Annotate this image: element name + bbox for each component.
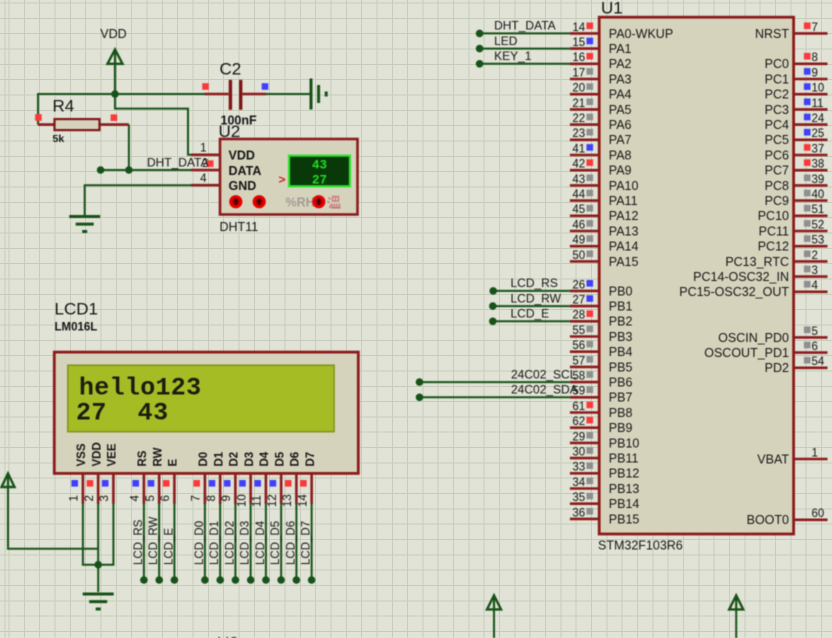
svg-text:PB12: PB12 — [609, 467, 640, 481]
pin LCD1.5 stub — [158, 473, 161, 503]
svg-text:D6: D6 — [290, 452, 302, 467]
svg-text:R4: R4 — [53, 97, 75, 116]
pin U1.38 PC7 stub — [794, 169, 828, 172]
svg-text:27: 27 — [572, 295, 585, 307]
svg-text:24C02_SCL: 24C02_SCL — [511, 367, 577, 381]
svg-text:LCD_D4: LCD_D4 — [255, 520, 267, 565]
svg-text:U3: U3 — [217, 634, 239, 638]
wire LCD_RS to U1 — [493, 290, 570, 292]
pin marker U1.51 — [804, 205, 811, 212]
junction LCD_RS — [489, 287, 497, 295]
pin U1.30 PB11 stub — [570, 457, 599, 460]
svg-text:VBAT: VBAT — [757, 452, 789, 466]
pin marker U1.50 — [587, 251, 594, 258]
svg-text:1: 1 — [200, 143, 206, 155]
svg-text:10: 10 — [812, 83, 825, 95]
pin marker R4.1 — [35, 114, 42, 121]
svg-text:22: 22 — [572, 113, 585, 125]
pin marker U1.25 — [804, 129, 811, 136]
pin U1.11 PC3 stub — [794, 108, 828, 111]
svg-text:>: > — [279, 173, 286, 187]
pin U1.35 PB14 stub — [570, 502, 599, 505]
wire LCD_RW (LCD side) — [158, 503, 160, 580]
svg-text:PA4: PA4 — [609, 88, 632, 102]
wire LCD_D6 (LCD side) — [295, 503, 297, 580]
pin marker LCD1.11 — [254, 480, 261, 487]
pin marker U1.35 — [587, 493, 594, 500]
wire LCD_D1 (LCD side) — [219, 503, 221, 580]
svg-text:D7: D7 — [305, 452, 317, 467]
pin U1.29 PB10 stub — [570, 442, 599, 445]
junction DATA (left) — [97, 166, 105, 174]
pin marker U1.45 — [587, 205, 594, 212]
svg-text:PC11: PC11 — [759, 224, 789, 238]
svg-text:LCD_D0: LCD_D0 — [194, 521, 206, 565]
svg-text:PC1: PC1 — [765, 72, 789, 86]
pin marker U1.5 — [804, 327, 811, 334]
pin marker U1.6 — [804, 342, 811, 349]
svg-text:9: 9 — [221, 495, 233, 501]
svg-text:PC5: PC5 — [765, 133, 789, 147]
svg-text:30: 30 — [572, 447, 585, 459]
svg-text:28: 28 — [572, 310, 585, 322]
svg-text:2: 2 — [812, 250, 818, 262]
svg-text:7: 7 — [191, 495, 203, 501]
pin U1.58 PB6 stub — [570, 381, 599, 384]
pin U1.8 PC0 stub — [794, 62, 828, 65]
svg-text:PB0: PB0 — [609, 284, 633, 298]
svg-text:PC0: PC0 — [765, 57, 789, 71]
pin LCD1.1 stub — [82, 473, 85, 503]
pin marker U1.30 — [587, 447, 594, 454]
wire LCD_D3 (LCD side) — [250, 503, 252, 580]
svg-text:25: 25 — [812, 128, 825, 140]
svg-text:1: 1 — [69, 495, 81, 501]
pin marker LCD1.1 — [71, 480, 78, 487]
svg-text:VSS: VSS — [76, 443, 88, 466]
pin U2.4 GND stub — [191, 184, 220, 187]
pin U1.60 BOOT0 stub — [794, 518, 828, 521]
svg-text:46: 46 — [572, 219, 585, 231]
svg-text:VDD: VDD — [100, 27, 126, 41]
svg-text:LCD_RW: LCD_RW — [148, 517, 160, 565]
pin marker U1.10 — [804, 83, 811, 90]
pin U1.44 PA11 stub — [570, 199, 599, 202]
svg-text:14: 14 — [572, 22, 585, 34]
wire LCD power to ground — [97, 565, 99, 592]
svg-text:STM32F103R6: STM32F103R6 — [598, 539, 683, 553]
svg-text:56: 56 — [572, 340, 585, 352]
svg-text:PB3: PB3 — [609, 330, 633, 344]
pin marker LCD1.3 — [102, 480, 109, 487]
svg-text:23: 23 — [572, 128, 585, 140]
svg-text:PC2: PC2 — [765, 88, 789, 102]
svg-text:LCD_E: LCD_E — [163, 528, 175, 565]
pin U1.52 PC11 stub — [794, 230, 828, 233]
svg-text:42: 42 — [572, 159, 585, 171]
svg-text:DHT_DATA: DHT_DATA — [147, 155, 209, 169]
pin U1.42 PA9 stub — [570, 169, 599, 172]
power symbol VDD — [108, 50, 123, 95]
pin marker U1.8 — [804, 53, 811, 60]
pin marker C2.2 — [262, 83, 269, 90]
svg-text:PA1: PA1 — [609, 42, 632, 56]
pin marker U1.2 — [804, 251, 811, 258]
pin U1.59 PB7 stub — [570, 396, 599, 399]
wire LCD_D7 (LCD side) — [311, 503, 313, 580]
svg-text:PA15: PA15 — [609, 255, 639, 269]
svg-text:9: 9 — [812, 67, 818, 79]
pin marker U1.16 — [587, 53, 594, 60]
wire LCD_D2 (LCD side) — [234, 503, 236, 580]
pin U1.10 PC2 stub — [794, 93, 828, 96]
svg-text:DHT_DATA: DHT_DATA — [494, 19, 556, 33]
svg-text:PB7: PB7 — [609, 391, 633, 405]
junction LCD_D2 end — [232, 576, 240, 584]
svg-text:6: 6 — [812, 341, 818, 353]
wire bottom centre power stem — [493, 609, 495, 638]
pin marker U1.54 — [804, 357, 811, 364]
svg-text:61: 61 — [572, 401, 585, 413]
IC LCD1 body — [54, 352, 358, 473]
svg-text:LCD_RW: LCD_RW — [511, 291, 562, 305]
junction LCD_D6 end — [293, 576, 301, 584]
wire LCD_D4 (LCD side) — [265, 503, 267, 580]
pin marker U1.14 — [587, 23, 594, 30]
wire DHT11 GND net — [85, 185, 191, 216]
svg-text:16: 16 — [572, 52, 585, 64]
svg-text:37: 37 — [812, 143, 825, 155]
pin marker LCD1.9 — [224, 480, 231, 487]
pin LCD1.11 stub — [265, 473, 268, 503]
svg-text:BOOT0: BOOT0 — [747, 513, 789, 527]
junction 24C02_SDA — [416, 394, 424, 402]
pin U1.26 PB0 stub — [570, 290, 599, 293]
pin marker LCD1.12 — [270, 480, 277, 487]
svg-text:27 43: 27 43 — [76, 398, 168, 427]
svg-text:17: 17 — [572, 67, 585, 79]
IC U1 STM32F103R6 body — [599, 17, 793, 534]
junction DHT_DATA — [476, 30, 484, 38]
svg-text:LCD_E: LCD_E — [511, 307, 550, 321]
svg-text:13: 13 — [282, 494, 294, 507]
svg-text:PB4: PB4 — [609, 345, 633, 359]
pin marker LCD1.13 — [285, 480, 292, 487]
svg-text:C2: C2 — [220, 60, 242, 79]
junction LED — [476, 45, 484, 53]
svg-text:PB1: PB1 — [609, 300, 633, 314]
junction LCD_D4 end — [262, 576, 270, 584]
svg-text:8: 8 — [206, 495, 218, 501]
svg-text:PA0-WKUP: PA0-WKUP — [609, 27, 673, 41]
ground (DHT11) — [69, 217, 100, 232]
svg-text:PB2: PB2 — [609, 315, 633, 329]
pin marker U1.34 — [587, 478, 594, 485]
pin U1.6 OSCOUT_PD1 stub — [794, 351, 828, 354]
svg-text:PB6: PB6 — [609, 376, 633, 390]
svg-text:5: 5 — [145, 495, 157, 501]
svg-text:PA14: PA14 — [609, 240, 639, 254]
svg-text:49: 49 — [572, 235, 585, 247]
svg-text:PB10: PB10 — [609, 436, 640, 450]
svg-text:PC4: PC4 — [765, 118, 789, 132]
svg-text:40: 40 — [812, 189, 825, 201]
DHT11 temp button — [312, 195, 325, 208]
svg-text:LM016L: LM016L — [55, 322, 98, 334]
DHT11 down button — [229, 195, 242, 208]
pin U1.15 PA1 stub — [570, 47, 599, 50]
svg-text:54: 54 — [812, 356, 825, 368]
svg-text:U1: U1 — [601, 0, 623, 18]
pin U1.17 PA3 stub — [570, 78, 599, 81]
svg-text:4: 4 — [200, 173, 207, 185]
svg-text:34: 34 — [572, 477, 585, 489]
svg-text:GND: GND — [229, 179, 257, 193]
svg-text:PA8: PA8 — [609, 148, 632, 162]
svg-text:LED: LED — [494, 34, 518, 48]
pin LCD1.13 stub — [295, 473, 298, 503]
pin marker U1.29 — [587, 432, 594, 439]
svg-text:41: 41 — [572, 143, 585, 155]
svg-text:26: 26 — [572, 279, 585, 291]
wire R4 right leg down to DATA — [128, 125, 130, 170]
pin marker U1.40 — [804, 190, 811, 197]
svg-text:11: 11 — [252, 495, 264, 507]
svg-text:PC8: PC8 — [765, 179, 789, 193]
wire KEY_1 to U1 — [480, 63, 570, 65]
pin marker LCD1.5 — [148, 480, 155, 487]
pin marker U1.17 — [587, 68, 594, 75]
svg-text:PA10: PA10 — [609, 179, 639, 193]
svg-text:PB15: PB15 — [609, 512, 640, 526]
svg-text:6: 6 — [160, 495, 172, 501]
wire 24C02_SCL to U1 — [420, 381, 570, 383]
pin U2.1 VDD stub — [191, 154, 220, 157]
svg-text:2: 2 — [84, 495, 96, 501]
svg-text:52: 52 — [812, 219, 825, 231]
svg-text:VDD: VDD — [92, 442, 104, 466]
svg-text:NRST: NRST — [755, 27, 789, 41]
junction LCD_RW — [489, 302, 497, 310]
svg-text:38: 38 — [812, 159, 825, 171]
pin marker U1.42 — [587, 159, 594, 166]
pin marker U1.9 — [804, 68, 811, 75]
wire LCD VSS — [83, 503, 98, 565]
svg-text:5k: 5k — [53, 133, 65, 145]
svg-text:LCD_D7: LCD_D7 — [301, 521, 313, 565]
svg-text:D2: D2 — [229, 452, 241, 467]
wire LCD_E to U1 — [493, 320, 570, 322]
svg-text:15: 15 — [572, 37, 585, 49]
pin marker U1.37 — [804, 144, 811, 151]
svg-text:RS: RS — [137, 450, 149, 466]
svg-text:60: 60 — [812, 508, 825, 520]
svg-text:36: 36 — [572, 507, 585, 519]
pin LCD1.8 stub — [219, 473, 222, 503]
svg-text:29: 29 — [572, 431, 585, 443]
svg-text:E: E — [168, 459, 180, 467]
pin U1.27 PB1 stub — [570, 305, 599, 308]
svg-text:PA12: PA12 — [609, 209, 639, 223]
pin LCD1.4 stub — [143, 473, 146, 503]
svg-text:45: 45 — [572, 204, 585, 216]
pin marker LCD1.6 — [163, 480, 170, 487]
svg-text:D1: D1 — [214, 451, 226, 466]
pin U1.61 PB8 stub — [570, 411, 599, 414]
svg-text:D4: D4 — [259, 451, 271, 466]
svg-text:11: 11 — [812, 98, 824, 110]
pin marker U1.20 — [587, 83, 594, 90]
pin U1.4 PC15-OSC32_OUT stub — [794, 290, 828, 293]
svg-text:43: 43 — [312, 158, 327, 172]
svg-text:LCD_D3: LCD_D3 — [240, 521, 252, 565]
wire LCD VEE — [98, 503, 113, 565]
DHT11 up button — [253, 195, 266, 208]
junction LCD_RS end — [140, 576, 148, 584]
wire LCD_D5 (LCD side) — [280, 503, 282, 580]
wire VDD rail — [38, 93, 205, 95]
pin LCD1.7 stub — [204, 473, 207, 503]
pin LCD1.2 stub — [97, 473, 100, 503]
DHT11 LCD readout — [289, 156, 350, 188]
svg-text:24C02_SDA: 24C02_SDA — [511, 383, 578, 397]
svg-text:OSCIN_PD0: OSCIN_PD0 — [718, 331, 789, 345]
svg-text:12: 12 — [267, 494, 279, 507]
pin U1.7 NRST stub — [794, 32, 828, 35]
svg-text:PC3: PC3 — [765, 103, 789, 117]
pin U1.23 PA7 stub — [570, 139, 599, 142]
pin LCD1.3 stub — [112, 473, 115, 503]
junction LCD power — [94, 561, 102, 569]
svg-text:PB8: PB8 — [609, 406, 633, 420]
pin marker U1.61 — [587, 402, 594, 409]
pin U1.40 PC9 stub — [794, 199, 828, 202]
pin U1.25 PC5 stub — [794, 139, 828, 142]
svg-text:PC7: PC7 — [765, 164, 789, 178]
wire LCD_RW to U1 — [493, 305, 570, 307]
junction LCD_D5 end — [277, 576, 285, 584]
pin marker U1.38 — [804, 159, 811, 166]
junction LCD_RW end — [155, 576, 163, 584]
pin marker U1.27 — [587, 295, 594, 302]
svg-text:PC9: PC9 — [765, 194, 789, 208]
pin U1.54 PD2 stub — [794, 366, 828, 369]
svg-text:35: 35 — [572, 492, 585, 504]
svg-text:D0: D0 — [198, 452, 210, 467]
pin U1.22 PA6 stub — [570, 123, 599, 126]
pin marker U1.57 — [587, 356, 594, 363]
pin U1.53 PC12 stub — [794, 245, 828, 248]
svg-text:27: 27 — [312, 173, 327, 187]
wire bottom right power stem — [735, 609, 737, 638]
svg-text:4: 4 — [812, 280, 819, 292]
wire 24C02_SDA to U1 — [420, 396, 570, 398]
svg-text:20: 20 — [572, 83, 585, 95]
pin U1.14 PA0-WKUP stub — [570, 32, 599, 35]
svg-text:PB14: PB14 — [609, 497, 640, 511]
svg-text:D5: D5 — [274, 451, 286, 466]
svg-text:U2: U2 — [219, 122, 241, 141]
pin marker U1.33 — [587, 462, 594, 469]
pin U1.5 OSCIN_PD0 stub — [794, 336, 828, 339]
pin marker U1.28 — [587, 310, 594, 317]
pin marker U1.59 — [587, 386, 594, 393]
pin marker C2.1 — [202, 83, 209, 90]
svg-text:D3: D3 — [244, 452, 256, 467]
pin marker U2.2 — [207, 160, 214, 167]
pin marker U1.15 — [587, 38, 594, 45]
pin U1.57 PB5 stub — [570, 366, 599, 369]
svg-text:4: 4 — [130, 495, 142, 502]
pin U1.43 PA10 stub — [570, 184, 599, 187]
svg-text:LCD_D2: LCD_D2 — [224, 521, 236, 565]
pin marker U1.62 — [587, 417, 594, 424]
svg-text:VEE: VEE — [107, 443, 119, 466]
svg-text:PC10: PC10 — [758, 209, 789, 223]
wire VDD rail left leg to R4 — [37, 93, 39, 125]
svg-text:PC14-OSC32_IN: PC14-OSC32_IN — [693, 270, 789, 284]
pin marker U1.22 — [587, 114, 594, 121]
pin marker U1.39 — [804, 175, 811, 182]
wire LCD VDD — [97, 503, 99, 565]
svg-text:57: 57 — [572, 355, 585, 367]
svg-text:KEY_1: KEY_1 — [494, 49, 532, 63]
pin marker LCD1.2 — [87, 480, 94, 487]
svg-text:PA3: PA3 — [609, 72, 632, 86]
ground (right of C2, rotated) — [311, 79, 326, 110]
svg-text:43: 43 — [572, 174, 585, 186]
ground (LCD) — [83, 594, 114, 609]
resistor R4 — [38, 119, 129, 130]
svg-text:PA6: PA6 — [609, 118, 632, 132]
svg-text:PB9: PB9 — [609, 421, 633, 435]
wire DHT11 DATA net — [101, 169, 191, 171]
svg-text:PA7: PA7 — [609, 133, 632, 147]
svg-text:53: 53 — [812, 235, 825, 247]
svg-text:LCD_RS: LCD_RS — [133, 519, 145, 565]
svg-text:55: 55 — [572, 325, 585, 337]
junction LCD_E end — [171, 576, 179, 584]
svg-text:33: 33 — [572, 462, 585, 474]
capacitor C2 — [205, 80, 267, 110]
svg-text:VDD: VDD — [229, 149, 255, 163]
pin marker LCD1.10 — [239, 480, 246, 487]
pin U2.2 DATA stub — [191, 169, 220, 172]
svg-text:7: 7 — [812, 22, 818, 34]
svg-text:PC13_RTC: PC13_RTC — [725, 255, 789, 269]
pin marker LCD1.14 — [300, 480, 307, 487]
pin marker U1.36 — [587, 508, 594, 515]
pin U1.37 PC6 stub — [794, 154, 828, 157]
pin U1.51 PC10 stub — [794, 215, 828, 218]
pin U1.1 VBAT stub — [794, 458, 828, 461]
pin marker LCD1.7 — [193, 480, 200, 487]
pin marker U1.44 — [587, 190, 594, 197]
wire LED to U1 — [480, 48, 570, 50]
junction 24C02_SCL — [416, 378, 424, 386]
pin LCD1.14 stub — [310, 473, 313, 503]
pin marker U1.23 — [587, 129, 594, 136]
power symbol (bottom right) — [729, 595, 743, 611]
pin U1.21 PA5 stub — [570, 108, 599, 111]
pin U1.34 PB13 stub — [570, 487, 599, 490]
pin U1.20 PA4 stub — [570, 93, 599, 96]
junction LCD_D0 end — [201, 576, 209, 584]
pin U1.33 PB12 stub — [570, 472, 599, 475]
pin U1.45 PA12 stub — [570, 215, 599, 218]
svg-text:LCD_D5: LCD_D5 — [270, 521, 282, 565]
junction LCD_E — [489, 318, 497, 326]
